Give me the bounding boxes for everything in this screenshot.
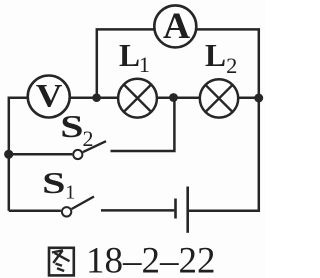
wire S2 branch from left node to pivot (9, 153, 73, 156)
svg-text:1: 1 (65, 181, 75, 203)
wire node to L2 (174, 97, 201, 100)
node junction dot 4 (4, 150, 13, 159)
wire L1 to node (157, 97, 174, 100)
switch S2 blade (83, 141, 106, 152)
battery negative plate (short) (174, 199, 177, 219)
switch S1 blade (72, 197, 94, 210)
label S1 (42, 165, 75, 204)
svg-text:S: S (42, 165, 65, 200)
label S2 (60, 108, 93, 151)
ammeter A1 (154, 5, 196, 47)
wire voltmeter right lead to node (70, 97, 97, 100)
voltmeter V1 (28, 76, 70, 118)
wire top branch: riser, left lead of ammeter (97, 29, 154, 97)
switch S2 pivot (73, 150, 82, 159)
wire node to L1 (97, 97, 118, 100)
svg-text:2: 2 (83, 126, 94, 151)
svg-text:2: 2 (226, 53, 237, 78)
svg-text:18–2–22: 18–2–22 (86, 241, 216, 278)
label L2 (205, 38, 237, 78)
label L1 (119, 38, 150, 77)
battery positive plate (long) (186, 187, 189, 233)
svg-text:L: L (119, 38, 140, 73)
wire L2 to right node (238, 97, 259, 100)
lamp L2 (200, 79, 238, 117)
wire S1 fixed contact to battery (101, 209, 174, 212)
wire bottom to switch S1 (9, 210, 61, 213)
node junction dot 1 (92, 93, 101, 102)
svg-text:A: A (163, 6, 190, 47)
node junction dot 3 (254, 94, 263, 103)
svg-text:L: L (205, 38, 226, 73)
svg-text:1: 1 (139, 52, 150, 77)
svg-text:S: S (60, 108, 83, 144)
node junction dot 2 (169, 93, 178, 102)
svg-text:V: V (36, 78, 63, 114)
wire S2 fixed contact and riser to node (111, 98, 175, 151)
wire voltmeter left lead and left vertical (9, 98, 28, 211)
caption character 图 (49, 248, 74, 276)
lamp L1 (118, 79, 157, 118)
wire ammeter right lead, right vertical, battery right wire (189, 29, 259, 210)
switch S1 pivot (62, 207, 71, 216)
